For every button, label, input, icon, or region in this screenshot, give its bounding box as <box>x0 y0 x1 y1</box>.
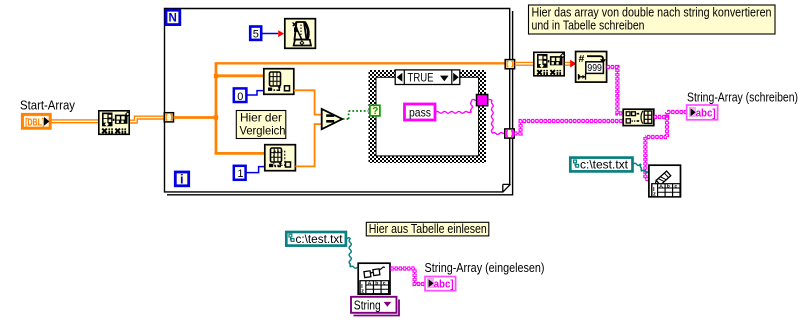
wire to index node 1 <box>215 74 264 77</box>
control terminal Start-Array [DBL] <box>22 114 50 128</box>
wire vertical branch <box>215 63 218 153</box>
svg-text:[DBL]: [DBL] <box>25 116 44 128</box>
svg-text:pass: pass <box>409 105 431 119</box>
svg-text:i: i <box>180 172 184 187</box>
wire reader to indicator <box>390 269 425 285</box>
read from spreadsheet file icon <box>358 263 390 294</box>
enum constant String <box>351 297 399 316</box>
numeric constant 5 <box>250 27 261 41</box>
wire builder to indicator and down to writer <box>654 112 687 118</box>
wire 1 to index node 2 <box>246 167 265 173</box>
svg-text:und in Tabelle schreiben: und in Tabelle schreiben <box>532 19 645 33</box>
for loop shadow <box>167 11 513 195</box>
junction dots <box>214 74 218 78</box>
svg-text:999: 999 <box>587 62 602 74</box>
wire 5 to wait <box>262 33 278 35</box>
svg-text:c:\test.txt: c:\test.txt <box>580 158 629 172</box>
index array node 2 <box>265 145 296 171</box>
equal? comparison node <box>322 109 343 129</box>
table builder node <box>623 109 654 125</box>
loop input tunnel [] <box>164 113 173 122</box>
svg-text:String-Array (eingelesen): String-Array (eingelesen) <box>425 261 545 275</box>
svg-text:N: N <box>169 12 177 24</box>
wire to index node 2 <box>215 152 265 155</box>
numeric constant 1 <box>234 166 246 180</box>
svg-text:Vergleich: Vergleich <box>240 124 286 138</box>
wire array inside loop <box>174 116 218 119</box>
svg-text:?: ? <box>372 106 378 117</box>
svg-text:String-Array (schreiben): String-Array (schreiben) <box>687 91 798 105</box>
wire pass to tunnel <box>436 111 472 113</box>
wire converter to loop tunnel <box>130 116 165 123</box>
wire string array from loop tunnel to table builder <box>514 121 623 134</box>
wire converter to number-to-string <box>565 62 571 65</box>
wire case tunnel to loop tunnel <box>488 98 492 101</box>
comment Hier aus Tabelle einlesen <box>366 222 489 236</box>
index array node 1 <box>264 69 294 95</box>
case selector label TRUE <box>395 70 460 85</box>
converter icon (1D to 2D array) <box>99 111 130 135</box>
N count terminal <box>166 10 180 24</box>
indicator String-Array (schreiben) <box>687 105 718 120</box>
wire 2D array out of loop to converter <box>515 62 534 65</box>
comment Hier der Vergleich <box>236 111 285 139</box>
for loop resize corner fold <box>503 184 511 192</box>
svg-text:Hier der: Hier der <box>240 111 282 125</box>
number to fractional string icon <box>576 52 607 83</box>
comment box: Hier das array ... <box>529 5 776 34</box>
wire index1 out to equals <box>294 90 322 114</box>
wire path to writer <box>633 163 641 165</box>
wire boolean to case selector <box>343 111 370 119</box>
wire path to reader <box>347 238 351 239</box>
svg-text:1: 1 <box>237 168 243 180</box>
i iteration terminal <box>175 172 188 187</box>
wire 0 to index node 1 <box>247 91 264 95</box>
write to spreadsheet file icon <box>649 165 681 197</box>
wire index2 out to equals <box>295 124 322 166</box>
path constant c:\test.txt (read) <box>286 232 346 246</box>
loop output tunnel string [] <box>505 129 514 138</box>
wait until next ms multiple (metronome) <box>285 19 316 49</box>
for loop N border <box>165 9 510 192</box>
converter icon 2 <box>534 52 565 76</box>
svg-text:Hier das array von double nach: Hier das array von double nach string ko… <box>532 6 772 20</box>
path constant c:\test.txt (write) <box>570 158 632 172</box>
coercion arrow red <box>570 60 576 68</box>
case output tunnel (filled) <box>477 95 488 106</box>
string constant pass <box>405 104 436 120</box>
case structure border <box>369 70 487 163</box>
svg-text:TRUE: TRUE <box>408 71 434 85</box>
wire top long row to out tunnel <box>215 62 506 64</box>
svg-text:5: 5 <box>253 29 259 41</box>
case boolean tunnel ? <box>370 105 380 117</box>
indicator String-Array (eingelesen) <box>425 277 456 291</box>
svg-text:0: 0 <box>237 91 243 103</box>
svg-text:Start-Array: Start-Array <box>20 99 76 113</box>
numeric constant 0 <box>234 88 247 102</box>
svg-text:String: String <box>354 298 381 312</box>
svg-text:#: # <box>579 53 585 65</box>
loop output tunnel orange [] <box>505 60 514 69</box>
svg-text:Hier aus Tabelle einlesen: Hier aus Tabelle einlesen <box>369 222 487 236</box>
wire string down to table builder <box>607 67 624 113</box>
coercion dot (red arrow) <box>278 30 284 37</box>
svg-text:c:\test.txt: c:\test.txt <box>296 232 344 246</box>
wire 2D dbl array: terminal to converter <box>51 120 99 123</box>
